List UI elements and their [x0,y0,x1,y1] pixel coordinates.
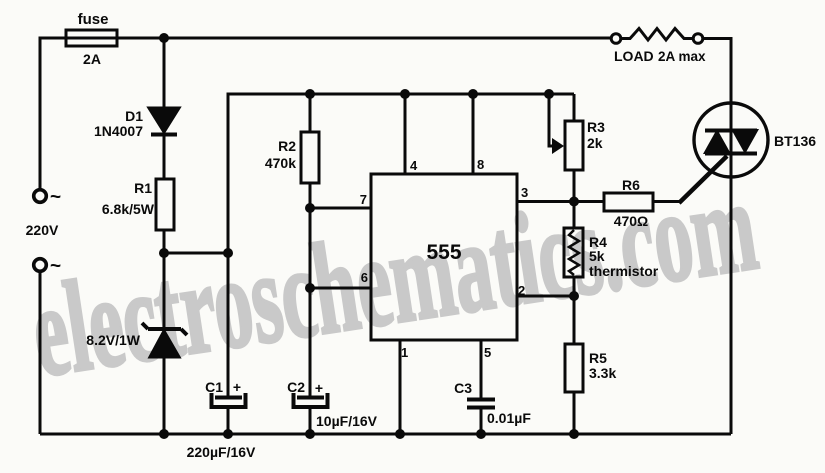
IC U1 555 box [371,174,517,340]
label 2k [587,135,603,151]
svg-text:~: ~ [50,187,61,208]
label 0.01uF [487,410,531,426]
wire top AC live from source corner to fuse [40,38,66,189]
wire R2 to pin7 to pin6 to C2 [309,183,312,396]
label C2 [287,379,305,395]
junction dot bottom C1 [223,429,233,439]
wire R3 to pin3 node [573,170,576,229]
thermistor R4 5k [564,228,583,277]
svg-text:BT136: BT136 [774,133,816,149]
wire triac vertical through circle [730,103,733,434]
wire pin 8 [472,94,475,174]
svg-text:thermistor: thermistor [589,263,659,279]
terminal circle LOAD left [611,34,621,44]
svg-text:D1: D1 [125,108,143,124]
wire bus corner into R3 [573,94,576,121]
wire pin 5 to C3 [480,340,483,398]
capacitor C1 220uF/16V [212,393,246,407]
svg-text:3: 3 [521,185,528,200]
wire pin 6 [310,287,371,290]
pin label 6 [361,270,368,285]
svg-text:470Ω: 470Ω [614,213,649,229]
svg-text:LOAD: LOAD [614,48,654,64]
wire R1 to zener [163,230,166,327]
svg-text:6: 6 [361,270,368,285]
label C3 [454,380,472,396]
pin label 7 [360,192,367,207]
svg-text:2k: 2k [587,135,603,151]
svg-text:fuse: fuse [78,11,109,28]
svg-text:2A: 2A [83,51,101,67]
svg-text:6.8k/5W: 6.8k/5W [102,201,155,217]
label C1 plus [233,379,241,395]
svg-text:3.3k: 3.3k [589,365,616,381]
svg-text:470k: 470k [265,155,296,171]
junction dot bus pin8 [468,89,478,99]
wire pin 1 to bottom rail [399,340,402,434]
wire pin 4 [404,94,407,174]
pin label 2 [518,283,525,298]
label 1N4007 [94,123,143,139]
junction dot bus pin4 [400,89,410,99]
svg-text:R6: R6 [622,177,640,193]
label ~ bottom [50,256,61,277]
wire C1 branch vertical [228,94,574,253]
wire bottom rail [40,433,731,436]
svg-text:4: 4 [410,158,418,173]
wire R5 to bottom rail [573,392,576,434]
wire pin 7 [310,207,371,210]
junction dot pin2 node [569,291,579,301]
wire C1 to bottom rail [227,409,230,434]
svg-text:7: 7 [360,192,367,207]
label R4 [589,234,607,250]
junction dot bottom R5 [569,429,579,439]
label 6.8k/5W [102,201,155,217]
svg-text:10µF/16V: 10µF/16V [316,413,378,429]
wire R6 to gate diagonal [653,156,727,203]
preset R3 2k body [565,121,583,170]
pin label 4 [410,158,418,173]
capacitor C2 10uF/16V [294,393,328,407]
label 470k [265,155,296,171]
junction dot pin3 node [569,197,579,207]
resistor R6 470 ohm [604,193,653,211]
svg-text:~: ~ [50,256,61,277]
label R2 [278,138,296,154]
pin label 3 [521,185,528,200]
label thermistor [589,263,659,279]
junction dot pin6 [305,283,315,293]
junction dot R1 zener node [159,248,169,258]
label R6 [622,177,640,193]
label 470ohm [614,213,649,229]
svg-text:5: 5 [484,345,491,360]
triac T1 BT136 [694,103,768,177]
wire C3 to bottom rail [480,408,483,434]
pin label 5 [484,345,491,360]
fuse F1 [66,30,117,46]
wire R2 branch [309,94,312,132]
label 220uF/16V [187,444,256,460]
wire AC neutral from lower terminal to bottom rail [39,272,42,434]
wire zener to bottom rail [163,357,166,434]
svg-text:1N4007: 1N4007 [94,123,143,139]
label 2A [83,51,101,67]
resistor R2 470k [301,132,319,183]
svg-text:2A max: 2A max [658,49,706,64]
wire D1 to R1 [163,136,166,179]
resistor R1 [156,179,174,230]
svg-text:220µF/16V: 220µF/16V [187,444,256,460]
label 555 [426,241,461,264]
label C1 [205,379,223,395]
wire R4 to pin2 node to R5 [573,278,576,344]
label 3.3k [589,365,616,381]
label C2 plus [315,380,323,396]
junction dot bus R3 wiper [544,89,554,99]
junction dot pin7 [305,203,315,213]
pin label 1 [401,345,408,360]
svg-text:C2: C2 [287,379,305,395]
junction dot bus R2 [305,89,315,99]
wire LOAD to triac MT2 [703,39,731,104]
label 5k [589,248,605,264]
label 220V [26,222,59,238]
capacitor C3 0.01uF [467,400,495,408]
terminal circle LOAD right [693,34,703,44]
wire D1 branch from top rail [163,38,166,108]
svg-text:+: + [233,379,241,395]
R3 wiper arm with arrow [549,94,564,154]
label R3 [587,119,605,135]
label fuse [78,11,109,28]
label BT136 [774,133,816,149]
wire C1 down [227,253,230,396]
label 10uF/16V [316,413,378,429]
svg-text:8: 8 [477,157,484,172]
label R1 [134,180,152,196]
svg-text:2: 2 [518,283,525,298]
watermark electroschematics.com [23,154,765,405]
resistor R5 3.3k [565,344,583,392]
terminal circle AC bottom [34,259,47,272]
svg-text:1: 1 [401,345,408,360]
wire fuse to LOAD terminal [117,37,611,40]
svg-text:555: 555 [426,241,461,264]
pin label 8 [477,157,484,172]
junction dot bottom zener [159,429,169,439]
zener diode ZD1 8.2V/1W [142,323,187,357]
LOAD resistor zigzag [621,29,694,41]
label R5 [589,350,607,366]
junction dot C1 node [223,248,233,258]
wire pin 2 [517,295,574,298]
svg-text:R3: R3 [587,119,605,135]
wire pin 3 [517,200,604,203]
svg-text:8.2V/1W: 8.2V/1W [86,332,140,348]
terminal circle AC top [34,190,47,203]
svg-text:220V: 220V [26,222,59,238]
svg-text:R1: R1 [134,180,152,196]
label D1 [125,108,143,124]
label ~ top [50,187,61,208]
wire C2 to bottom rail [309,409,312,434]
svg-text:+: + [315,380,323,396]
wire junction to C1 branch [164,252,228,255]
svg-text:R5: R5 [589,350,607,366]
junction dot bottom C3 [476,429,486,439]
svg-text:0.01µF: 0.01µF [487,410,531,426]
label LOAD [614,48,654,64]
label 2A max [658,49,706,64]
svg-text:R2: R2 [278,138,296,154]
junction dot bottom C2 [305,429,315,439]
svg-text:C3: C3 [454,380,472,396]
junction dot D1 top [159,33,169,43]
svg-text:C1: C1 [205,379,223,395]
svg-text:5k: 5k [589,248,605,264]
junction dot bottom pin1 [395,429,405,439]
label 8.2V/1W [86,332,140,348]
diode D1 1N4007 [149,108,179,135]
